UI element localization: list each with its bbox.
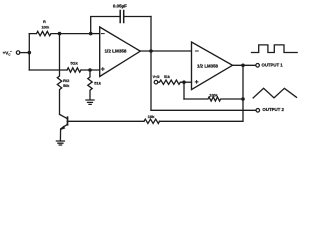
- svg-text:OUTPUT 1: OUTPUT 1: [262, 62, 284, 67]
- svg-text:R: R: [43, 20, 46, 24]
- resistor R 100k: [29, 31, 59, 35]
- transistor Q1: [60, 115, 68, 142]
- capacitor C1 0.05uF: [91, 11, 151, 34]
- ground (divider): [86, 100, 94, 104]
- node A (inverting node top junction): [58, 32, 62, 36]
- node: op2 plus junction: [182, 80, 186, 84]
- svg-text:50k: 50k: [63, 84, 70, 88]
- ground (Q1 emitter): [56, 141, 64, 145]
- resistor 51k (V+/2): [158, 80, 184, 84]
- op-amp U1 1/2 LM358: [100, 27, 141, 77]
- svg-text:51k: 51k: [70, 61, 78, 66]
- node: divider junction: [88, 68, 92, 72]
- svg-text:0.05µF: 0.05µF: [113, 3, 127, 8]
- wire: to op-amp U1 inverting input: [91, 33, 100, 35]
- terminal OUTPUT 1: [256, 64, 260, 68]
- svg-text:1/2 LM358: 1/2 LM358: [105, 48, 128, 53]
- wire: Q1 base to 10k: [68, 120, 145, 122]
- svg-text:100k: 100k: [42, 25, 50, 30]
- resistor 51k to ground: [88, 70, 92, 100]
- node: op2 output junction: [241, 64, 245, 68]
- wire: main vertical (cap feedback / triangle out): [150, 17, 152, 111]
- wire: VC terminal to rail: [20, 52, 30, 54]
- square wave icon: [252, 45, 298, 53]
- wire: op2 output down to 10k row: [160, 65, 244, 121]
- svg-text:R/2: R/2: [63, 79, 69, 83]
- svg-text:100k: 100k: [209, 93, 218, 98]
- wire: to op2 plus input: [184, 81, 192, 83]
- terminal OUTPUT 2: [256, 109, 260, 113]
- node: feedback right junction: [241, 97, 245, 101]
- svg-text:51k: 51k: [94, 81, 101, 86]
- resistor 10k: [144, 119, 160, 123]
- svg-text:10k: 10k: [148, 115, 156, 119]
- terminal V+/2: [154, 80, 158, 84]
- wire: OUTPUT 2 row: [151, 109, 256, 111]
- wire: 51k to op1 plus input: [81, 69, 100, 71]
- node: output junction: [149, 49, 153, 53]
- resistor 100k feedback: [184, 97, 243, 101]
- wire: node A to cap branch: [60, 33, 91, 35]
- input terminal +VC: [16, 51, 20, 55]
- wire: op1 output to op2 inverting input: [140, 50, 191, 52]
- svg-text:OUTPUT 2: OUTPUT 2: [262, 107, 284, 112]
- node: cap branch junction: [89, 32, 93, 36]
- wire: op1 plus-input row from rail: [29, 69, 67, 71]
- wire: plus junction down to feedback row: [183, 82, 185, 99]
- svg-text:51k: 51k: [164, 75, 171, 79]
- wire: op2 output: [233, 64, 256, 66]
- wire: left rail: [28, 34, 30, 70]
- node: VC rail junction: [28, 51, 32, 55]
- svg-text:V+/2: V+/2: [153, 75, 160, 79]
- triangle wave icon: [253, 88, 296, 98]
- resistor R/2 50k: [57, 34, 61, 115]
- svg-text:1/2 LM358: 1/2 LM358: [197, 64, 219, 69]
- resistor 51k (divider top): [67, 68, 81, 72]
- op-amp U2 1/2 LM358: [192, 42, 233, 90]
